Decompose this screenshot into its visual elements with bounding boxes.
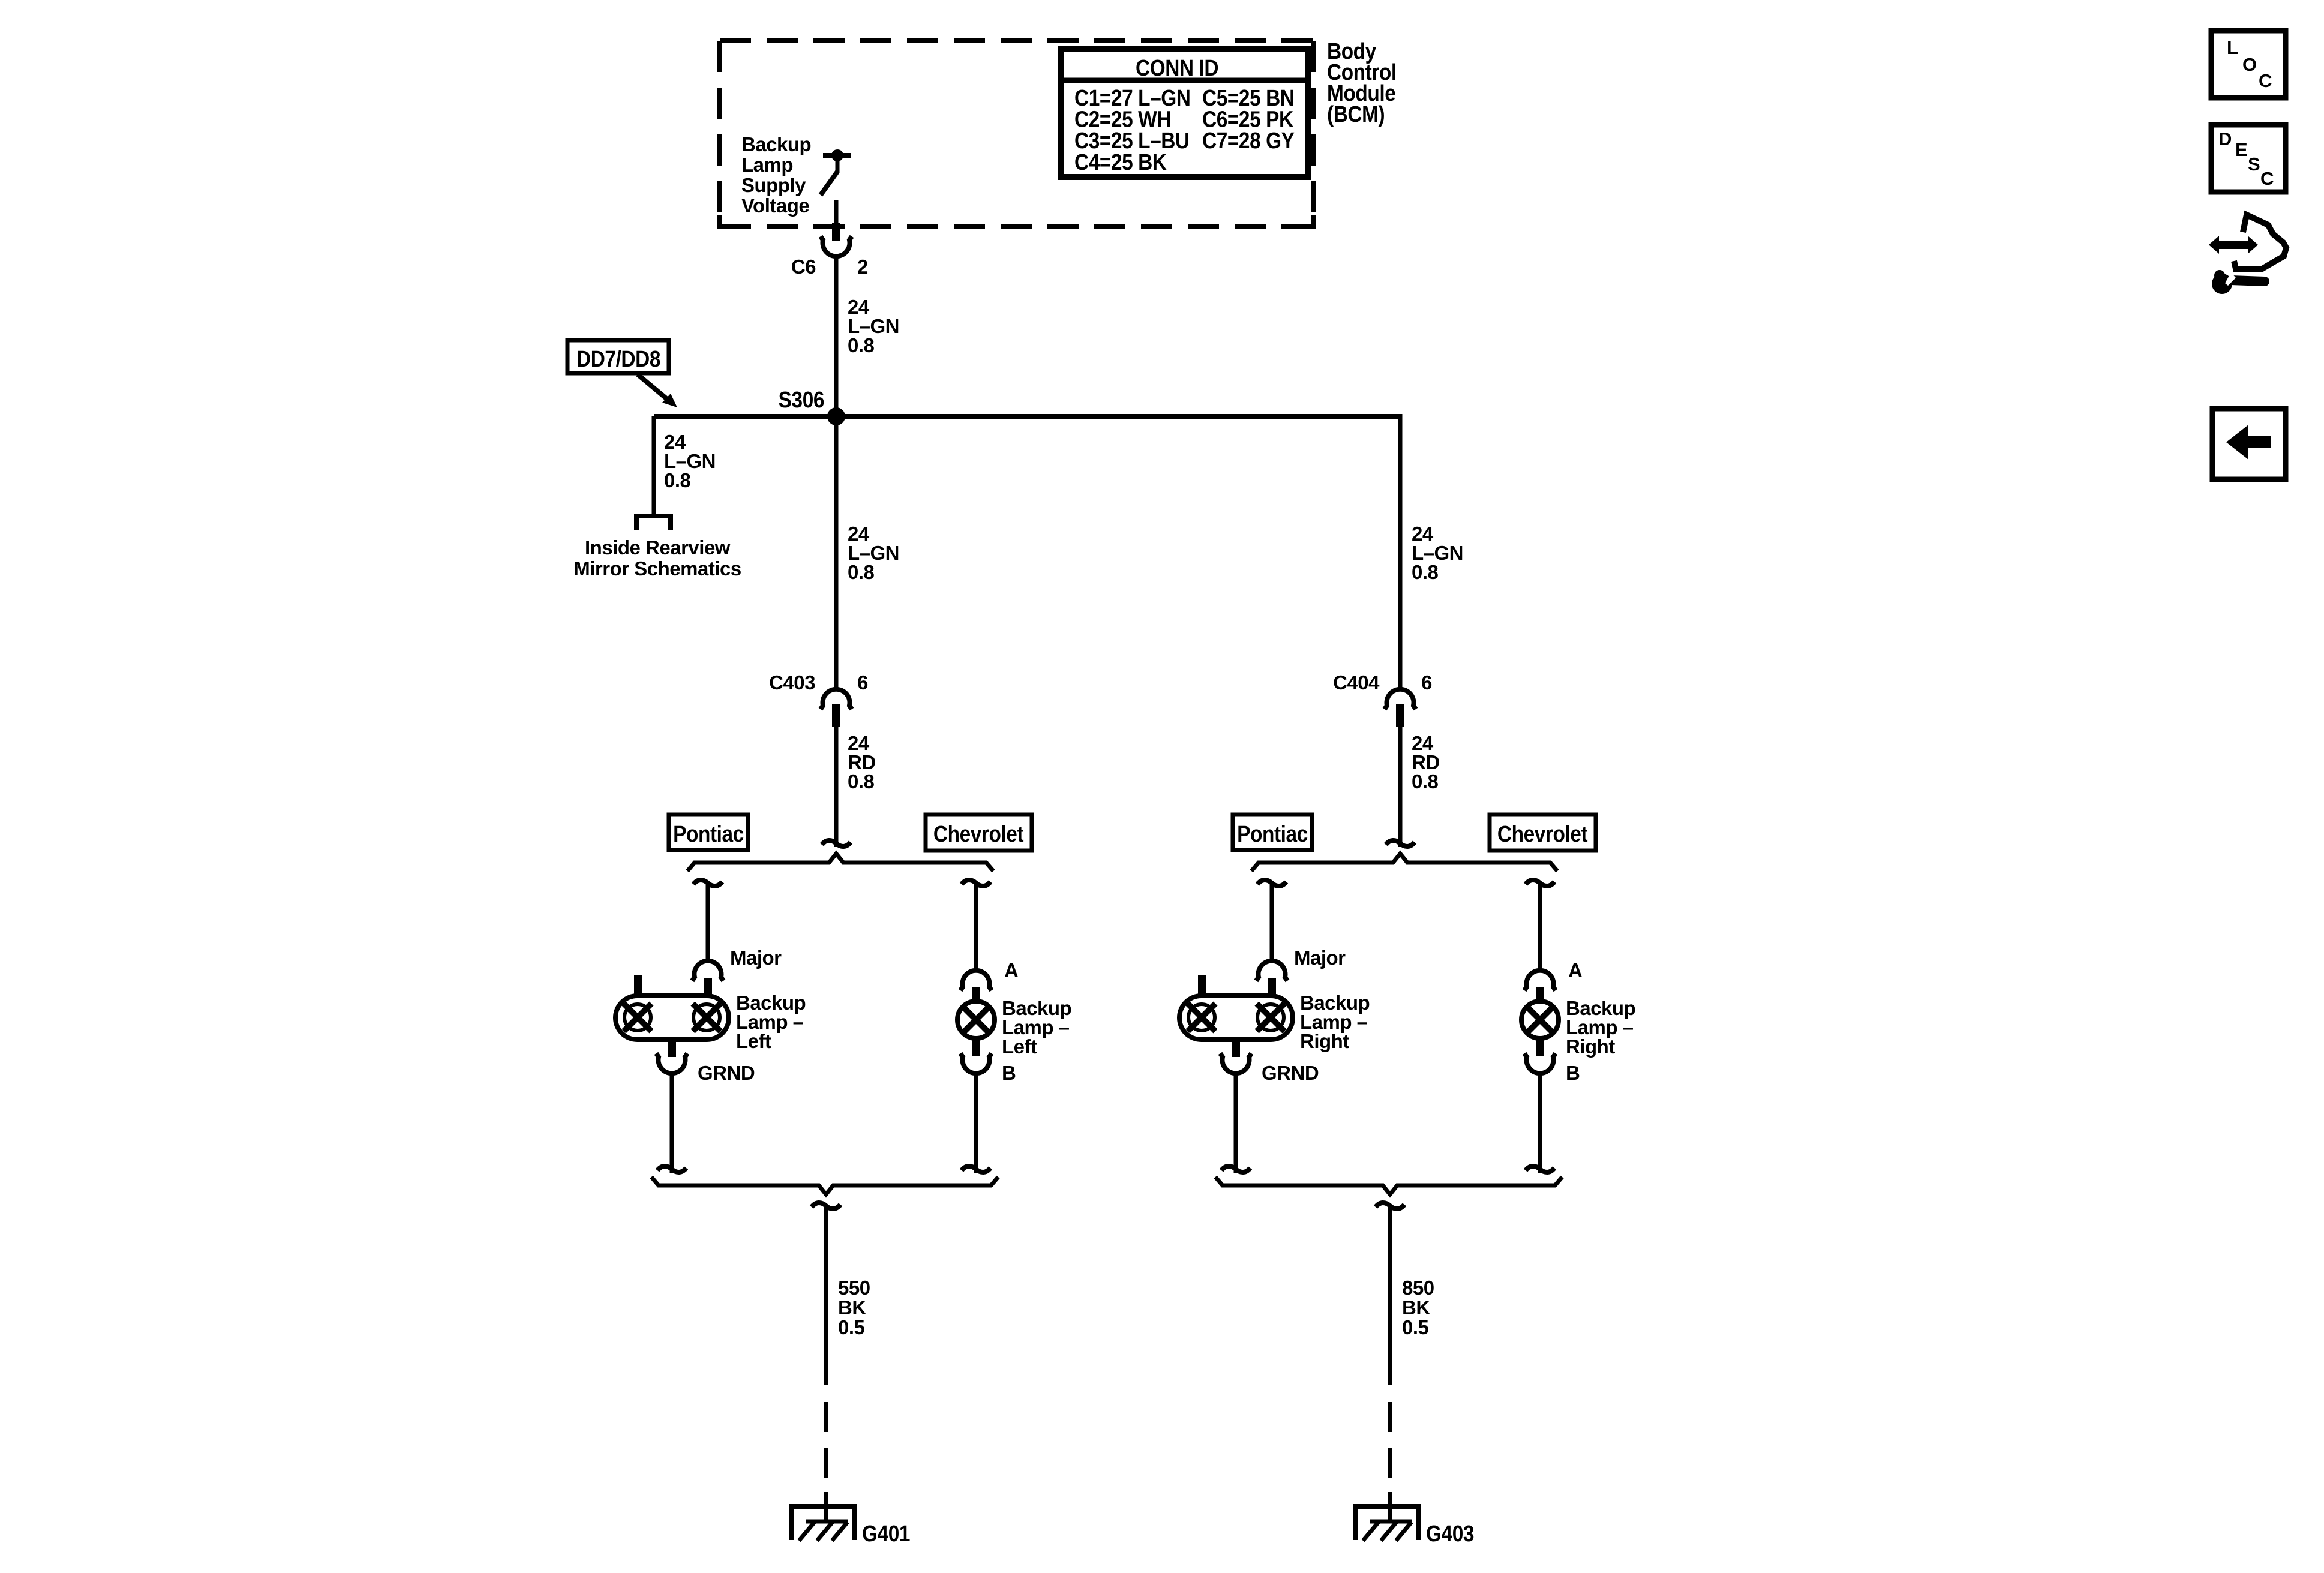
- svg-text:Lamp: Lamp: [741, 154, 793, 176]
- svg-text:6: 6: [1421, 671, 1432, 694]
- svg-text:Mirror Schematics: Mirror Schematics: [574, 557, 741, 580]
- svg-text:6: 6: [857, 671, 868, 694]
- svg-text:C404: C404: [1333, 671, 1380, 694]
- svg-text:O: O: [2242, 54, 2257, 75]
- svg-text:GRND: GRND: [698, 1062, 755, 1084]
- svg-text:L: L: [2227, 37, 2238, 58]
- svg-text:Left: Left: [1002, 1035, 1037, 1058]
- svg-text:C4=25 BK: C4=25 BK: [1074, 149, 1167, 175]
- svg-text:Right: Right: [1300, 1030, 1349, 1052]
- svg-text:A: A: [1568, 959, 1582, 981]
- svg-text:Right: Right: [1566, 1035, 1615, 1058]
- svg-text:550: 550: [838, 1277, 870, 1299]
- svg-text:2: 2: [857, 256, 868, 278]
- svg-text:0.5: 0.5: [1402, 1316, 1429, 1338]
- svg-text:Inside Rearview: Inside Rearview: [585, 536, 731, 559]
- svg-text:Voltage: Voltage: [741, 194, 809, 217]
- svg-text:0.8: 0.8: [1412, 770, 1439, 792]
- svg-text:Pontiac: Pontiac: [1237, 821, 1308, 846]
- svg-text:C: C: [2259, 70, 2272, 91]
- svg-text:0.8: 0.8: [848, 561, 875, 583]
- svg-text:Left: Left: [736, 1030, 771, 1052]
- svg-text:Chevrolet: Chevrolet: [933, 821, 1024, 846]
- svg-text:D: D: [2218, 128, 2232, 149]
- svg-text:BK: BK: [838, 1296, 866, 1319]
- svg-text:B: B: [1002, 1062, 1016, 1084]
- svg-text:0.8: 0.8: [848, 334, 875, 356]
- svg-text:Pontiac: Pontiac: [673, 821, 744, 846]
- svg-text:E: E: [2235, 139, 2247, 160]
- svg-text:(BCM): (BCM): [1327, 101, 1385, 127]
- svg-text:Major: Major: [1294, 947, 1346, 969]
- svg-text:GRND: GRND: [1262, 1062, 1319, 1084]
- svg-text:CONN ID: CONN ID: [1136, 55, 1218, 80]
- svg-text:A: A: [1004, 959, 1018, 981]
- svg-text:G401: G401: [862, 1521, 910, 1546]
- svg-text:G403: G403: [1426, 1521, 1474, 1546]
- svg-text:Chevrolet: Chevrolet: [1497, 821, 1588, 846]
- svg-text:S: S: [2248, 154, 2260, 175]
- svg-text:C6: C6: [791, 256, 816, 278]
- svg-text:B: B: [1566, 1062, 1580, 1084]
- svg-text:C7=28 GY: C7=28 GY: [1202, 128, 1295, 153]
- svg-text:Major: Major: [730, 947, 782, 969]
- svg-text:C: C: [2260, 168, 2274, 189]
- svg-text:0.8: 0.8: [848, 770, 875, 792]
- svg-text:0.8: 0.8: [1412, 561, 1439, 583]
- svg-text:0.5: 0.5: [838, 1316, 865, 1338]
- svg-text:0.8: 0.8: [664, 469, 691, 491]
- svg-text:Supply: Supply: [741, 174, 806, 196]
- svg-text:C403: C403: [769, 671, 815, 694]
- svg-text:DD7/DD8: DD7/DD8: [577, 346, 660, 371]
- svg-text:BK: BK: [1402, 1296, 1430, 1319]
- svg-text:Backup: Backup: [741, 133, 811, 155]
- svg-text:850: 850: [1402, 1277, 1434, 1299]
- svg-text:S306: S306: [779, 387, 824, 412]
